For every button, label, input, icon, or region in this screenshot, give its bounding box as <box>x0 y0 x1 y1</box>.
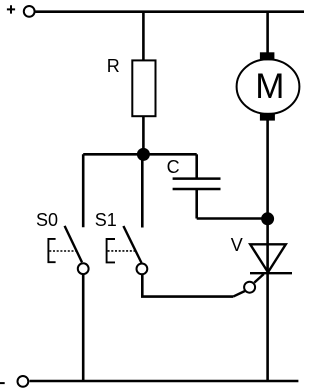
svg-text:V: V <box>231 235 243 255</box>
svg-text:R: R <box>107 56 120 76</box>
svg-text:S0: S0 <box>36 210 58 230</box>
svg-text:C: C <box>167 157 180 177</box>
svg-text:M: M <box>255 67 284 106</box>
svg-text:S1: S1 <box>95 210 117 230</box>
